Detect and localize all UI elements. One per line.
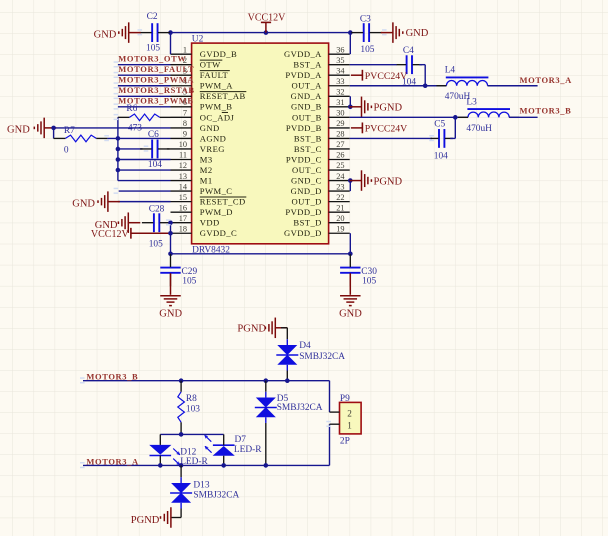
svg-text:D4: D4: [299, 341, 311, 351]
svg-text:25: 25: [336, 161, 344, 170]
svg-text:24: 24: [336, 172, 345, 181]
svg-text:OC_ADJ: OC_ADJ: [200, 112, 235, 122]
svg-text:GND: GND: [159, 309, 182, 320]
svg-text:27: 27: [336, 140, 344, 149]
svg-text:11: 11: [179, 151, 187, 160]
svg-text:PGND: PGND: [237, 323, 266, 334]
svg-text:MOTOR3_RSTAB: MOTOR3_RSTAB: [118, 85, 194, 95]
svg-text:104: 104: [434, 152, 448, 162]
svg-text:PVDD_B: PVDD_B: [286, 123, 322, 133]
svg-text:8: 8: [183, 119, 187, 128]
svg-text:MOTOR3_B: MOTOR3_B: [86, 372, 138, 382]
svg-text:GND_C: GND_C: [291, 175, 322, 185]
svg-text:2: 2: [347, 409, 352, 419]
svg-text:105: 105: [182, 276, 196, 286]
svg-text:P9: P9: [340, 394, 350, 404]
svg-text:MOTOR3_B: MOTOR3_B: [520, 106, 572, 116]
svg-text:R8: R8: [186, 394, 197, 404]
svg-text:M2: M2: [200, 165, 213, 175]
svg-text:2P: 2P: [340, 436, 350, 446]
svg-text:PGND: PGND: [131, 515, 160, 526]
svg-text:RESET_CD: RESET_CD: [200, 197, 246, 207]
svg-text:12: 12: [179, 161, 187, 170]
svg-text:BST_A: BST_A: [293, 60, 322, 70]
svg-text:PVDD_A: PVDD_A: [285, 70, 322, 80]
svg-text:D13: D13: [193, 481, 209, 491]
svg-text:U2: U2: [192, 34, 204, 44]
svg-text:OUT_B: OUT_B: [292, 112, 322, 122]
svg-text:L3: L3: [466, 97, 477, 107]
svg-text:GVDD_C: GVDD_C: [200, 228, 237, 238]
svg-text:D7: D7: [235, 435, 247, 445]
svg-text:13: 13: [179, 172, 187, 181]
svg-text:BST_D: BST_D: [293, 218, 321, 228]
svg-text:PGND: PGND: [374, 103, 403, 114]
svg-text:GND_A: GND_A: [291, 91, 323, 101]
svg-text:C4: C4: [403, 46, 414, 56]
svg-text:OUT_C: OUT_C: [292, 165, 322, 175]
svg-text:104: 104: [148, 160, 162, 170]
svg-text:MOTOR3_A: MOTOR3_A: [520, 75, 573, 85]
svg-text:FAULT: FAULT: [200, 70, 229, 80]
svg-text:C3: C3: [360, 14, 371, 24]
svg-text:L4: L4: [445, 66, 456, 76]
svg-text:C28: C28: [149, 205, 165, 215]
svg-text:VCC12V: VCC12V: [91, 229, 130, 240]
svg-text:BST_B: BST_B: [294, 133, 322, 143]
svg-text:19: 19: [336, 224, 344, 233]
svg-text:GND: GND: [7, 124, 30, 135]
svg-text:17: 17: [179, 214, 187, 223]
svg-text:14: 14: [179, 182, 188, 191]
svg-text:PGND: PGND: [374, 176, 403, 187]
svg-text:C2: C2: [147, 12, 158, 22]
svg-text:RESET_AB: RESET_AB: [200, 91, 246, 101]
svg-text:SMBJ32CA: SMBJ32CA: [193, 491, 239, 501]
svg-text:PVDD_C: PVDD_C: [286, 154, 322, 164]
svg-text:OUT_D: OUT_D: [292, 197, 322, 207]
svg-text:103: 103: [186, 405, 200, 415]
svg-text:MOTOR3_PWMA: MOTOR3_PWMA: [118, 74, 194, 84]
svg-text:R6: R6: [126, 104, 137, 114]
svg-text:MOTOR3_OTW: MOTOR3_OTW: [118, 53, 186, 63]
svg-text:VREG: VREG: [200, 144, 225, 154]
svg-text:MOTOR3_A: MOTOR3_A: [86, 456, 139, 466]
svg-text:C6: C6: [148, 130, 159, 140]
svg-text:33: 33: [336, 77, 344, 86]
svg-text:16: 16: [179, 203, 187, 212]
svg-text:105: 105: [362, 276, 376, 286]
svg-text:105: 105: [146, 43, 160, 53]
svg-text:28: 28: [336, 130, 344, 139]
svg-text:GVDD_B: GVDD_B: [200, 49, 237, 59]
svg-text:GVDD_A: GVDD_A: [284, 49, 322, 59]
svg-text:MOTOR3_FAULT: MOTOR3_FAULT: [118, 64, 194, 74]
svg-text:PVCC24V: PVCC24V: [365, 123, 407, 134]
svg-text:PWM_C: PWM_C: [200, 186, 233, 196]
svg-text:31: 31: [336, 98, 344, 107]
svg-text:15: 15: [179, 193, 187, 202]
svg-text:SMBJ32CA: SMBJ32CA: [277, 403, 323, 413]
svg-text:LED-R: LED-R: [234, 445, 262, 455]
svg-text:OTW: OTW: [200, 60, 221, 70]
svg-text:20: 20: [336, 214, 344, 223]
svg-text:GND: GND: [200, 123, 220, 133]
svg-text:21: 21: [336, 203, 344, 212]
svg-text:23: 23: [336, 182, 344, 191]
svg-text:VDD: VDD: [200, 218, 220, 228]
svg-text:C5: C5: [434, 120, 445, 130]
svg-text:9: 9: [183, 130, 187, 139]
svg-text:PVDD_D: PVDD_D: [285, 207, 321, 217]
svg-text:PVCC24V: PVCC24V: [365, 71, 407, 82]
svg-text:OUT_A: OUT_A: [292, 81, 323, 91]
svg-text:0: 0: [64, 146, 69, 156]
svg-text:D12: D12: [180, 447, 196, 457]
svg-text:35: 35: [336, 56, 344, 65]
svg-text:GND: GND: [339, 309, 362, 320]
svg-text:PWM_D: PWM_D: [200, 207, 233, 217]
svg-text:AGND: AGND: [200, 133, 227, 143]
svg-text:GND: GND: [72, 198, 95, 209]
svg-text:PWM_B: PWM_B: [200, 102, 233, 112]
svg-text:M3: M3: [200, 154, 213, 164]
svg-text:SMBJ32CA: SMBJ32CA: [299, 352, 345, 362]
svg-text:36: 36: [336, 45, 344, 54]
svg-text:29: 29: [336, 119, 344, 128]
svg-text:GVDD_D: GVDD_D: [284, 228, 322, 238]
svg-text:GND_D: GND_D: [291, 186, 322, 196]
svg-text:470uH: 470uH: [466, 124, 492, 134]
svg-text:10: 10: [179, 140, 187, 149]
svg-text:26: 26: [336, 151, 344, 160]
svg-text:22: 22: [336, 193, 344, 202]
svg-text:PWM_A: PWM_A: [200, 81, 234, 91]
svg-text:GND_B: GND_B: [291, 102, 322, 112]
svg-text:105: 105: [360, 45, 374, 55]
svg-text:30: 30: [336, 109, 344, 118]
svg-text:M1: M1: [200, 175, 213, 185]
svg-text:VCC12V: VCC12V: [248, 13, 287, 24]
svg-text:BST_C: BST_C: [294, 144, 322, 154]
svg-text:105: 105: [149, 240, 163, 250]
svg-text:7: 7: [183, 109, 187, 118]
svg-text:32: 32: [336, 87, 344, 96]
svg-text:18: 18: [179, 224, 187, 233]
svg-text:1: 1: [347, 421, 352, 431]
svg-text:R7: R7: [64, 126, 75, 136]
svg-text:34: 34: [336, 66, 345, 75]
svg-text:GND: GND: [406, 28, 429, 39]
svg-text:GND: GND: [94, 29, 117, 40]
